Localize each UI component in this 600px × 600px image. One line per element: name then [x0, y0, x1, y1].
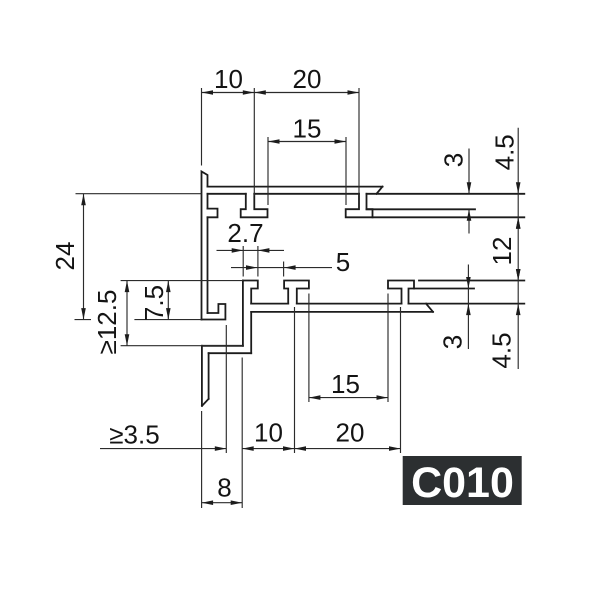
arrowheads 15 top: [268, 139, 280, 144]
profile bottom plate top face segments: [251, 303, 401, 305]
dimension line 15 bottom: [309, 397, 388, 399]
extension line top 15 right: [345, 137, 347, 205]
arrowhead 10 left: [202, 90, 214, 95]
arrowheads 4.5 bottom right: [516, 269, 521, 281]
profile top arm bottom face: [373, 216, 525, 218]
extension line 7.5 bottom: [134, 319, 201, 321]
dimension line 24: [83, 194, 85, 320]
profile bottom tail chamfer tip: [202, 399, 209, 406]
extension line rib top level left: [121, 280, 243, 282]
arrowheads 20 bottom: [295, 446, 307, 451]
arrowheads 5 (outside): [246, 265, 258, 270]
extension line bottom 15 right: [387, 294, 389, 403]
extension line 2.7 left: [242, 246, 244, 277]
dimension line 7.5: [167, 281, 169, 320]
profile top plate top face: [208, 186, 383, 188]
extension line bottom rib3 stem: [400, 307, 402, 453]
extension line top rib1 stem: [253, 88, 255, 196]
arrowheads 12 right: [516, 217, 521, 229]
svg-text:5: 5: [336, 247, 350, 277]
profile bottom rib 1 (flange on right): [243, 281, 258, 304]
profile wall inner face upper: [207, 194, 209, 209]
svg-text:3: 3: [439, 153, 469, 167]
profile bottom plate break diagonal: [426, 304, 433, 312]
svg-text:8: 8: [217, 473, 231, 503]
profile T-rib 2 of top plate: [346, 194, 373, 218]
arrowhead >=3.5 bottom: [215, 446, 227, 451]
dimension line 8 bottom: [202, 502, 243, 504]
dimension line 2.7: [217, 249, 285, 251]
extension line bottom 15 left: [308, 294, 310, 403]
profile bottom rib 3 step line to arm: [414, 288, 474, 290]
profile bottom plate bottom face: [251, 311, 433, 313]
extension line bottom wall left: [241, 358, 243, 509]
svg-text:≥12.5: ≥12.5: [92, 290, 122, 355]
svg-text:C010: C010: [411, 459, 514, 507]
arrowheads 7.5: [166, 281, 171, 293]
arrowheads >=12.5: [125, 281, 130, 293]
profile left wall J-hook at bottom: [202, 304, 226, 320]
svg-text:20: 20: [293, 64, 322, 94]
dimension line 10/20 top: [202, 92, 360, 94]
arrowheads 24: [81, 194, 86, 206]
profile wall inner face lower: [207, 217, 209, 313]
arrowheads 8 bottom: [202, 500, 214, 505]
dimension line 3 top right: [468, 149, 470, 234]
profile wall inner shoulder bump: [208, 209, 218, 218]
arrowheads 10 bottom: [242, 446, 254, 451]
arrowheads 2.7 (outside): [232, 248, 244, 253]
dimension line 5: [231, 267, 332, 269]
extension line bottom tail outer: [201, 411, 203, 508]
arrowheads 3 top right: [467, 182, 472, 194]
svg-text:20: 20: [336, 418, 365, 448]
extension line top 15 left: [267, 137, 269, 205]
arrowheads 3 bottom right: [466, 277, 471, 289]
extension line 24 bottom stub: [75, 319, 92, 321]
extension line shelf level left: [121, 345, 243, 347]
arrowheads 15 bottom: [309, 395, 321, 400]
svg-text:4.5: 4.5: [487, 332, 517, 368]
profile T-rib 1 of top plate: [241, 194, 268, 218]
extension line top left wall: [201, 88, 203, 166]
profile shelf step: [202, 346, 251, 353]
svg-text:7.5: 7.5: [139, 285, 169, 321]
profile top plate break diagonal: [377, 187, 383, 194]
svg-text:24: 24: [50, 242, 80, 271]
svg-text:3: 3: [438, 335, 468, 349]
arrowheads 10/20 middle pair: [243, 90, 255, 95]
arrowhead 20 right: [348, 90, 360, 95]
svg-text:10: 10: [254, 418, 283, 448]
extension line bottom hook face: [225, 325, 227, 453]
svg-text:4.5: 4.5: [490, 134, 520, 170]
profile bottom rib 2 (inverted T): [284, 281, 309, 304]
dimension line >=3.5 bottom: [100, 448, 226, 450]
profile bottom rib-wall left face: [242, 281, 244, 346]
extension line top rib2 stem: [358, 88, 360, 196]
C010 part number box: [403, 456, 522, 505]
profile bottom arm bottom face / plate top right: [409, 303, 525, 305]
profile top plate bottom face / glazing arm top face: [208, 193, 525, 195]
extension line 24 top: [76, 193, 202, 195]
arrowheads 4.5 top right: [516, 182, 521, 194]
profile bottom tail walls: [202, 346, 209, 406]
dimension line >=12.5: [126, 281, 128, 346]
profile wall right face below plate: [250, 312, 252, 353]
extension line 5 right: [283, 262, 285, 277]
dimension line 15 top: [268, 141, 346, 143]
extension line bottom rib2 stem: [294, 307, 296, 453]
dimension line 10/20 bottom: [242, 448, 400, 450]
dimension line 4.5/12/4.5 right: [517, 128, 519, 369]
dimension line 3 bottom right: [467, 265, 469, 350]
svg-text:12: 12: [487, 237, 517, 266]
svg-text:2.7: 2.7: [227, 218, 263, 248]
svg-text:10: 10: [214, 64, 243, 94]
profile top-left wall upstand with chamfered tip: [202, 172, 208, 320]
extension line 2.7 right: [257, 246, 259, 277]
svg-text:15: 15: [331, 369, 360, 399]
profile bottom rib 3 (inverted T, stem left): [388, 281, 414, 304]
profile top arm inner step line: [367, 208, 476, 210]
profile bottom arm top face: [419, 280, 524, 282]
svg-text:15: 15: [293, 114, 322, 144]
svg-text:≥3.5: ≥3.5: [109, 420, 159, 450]
